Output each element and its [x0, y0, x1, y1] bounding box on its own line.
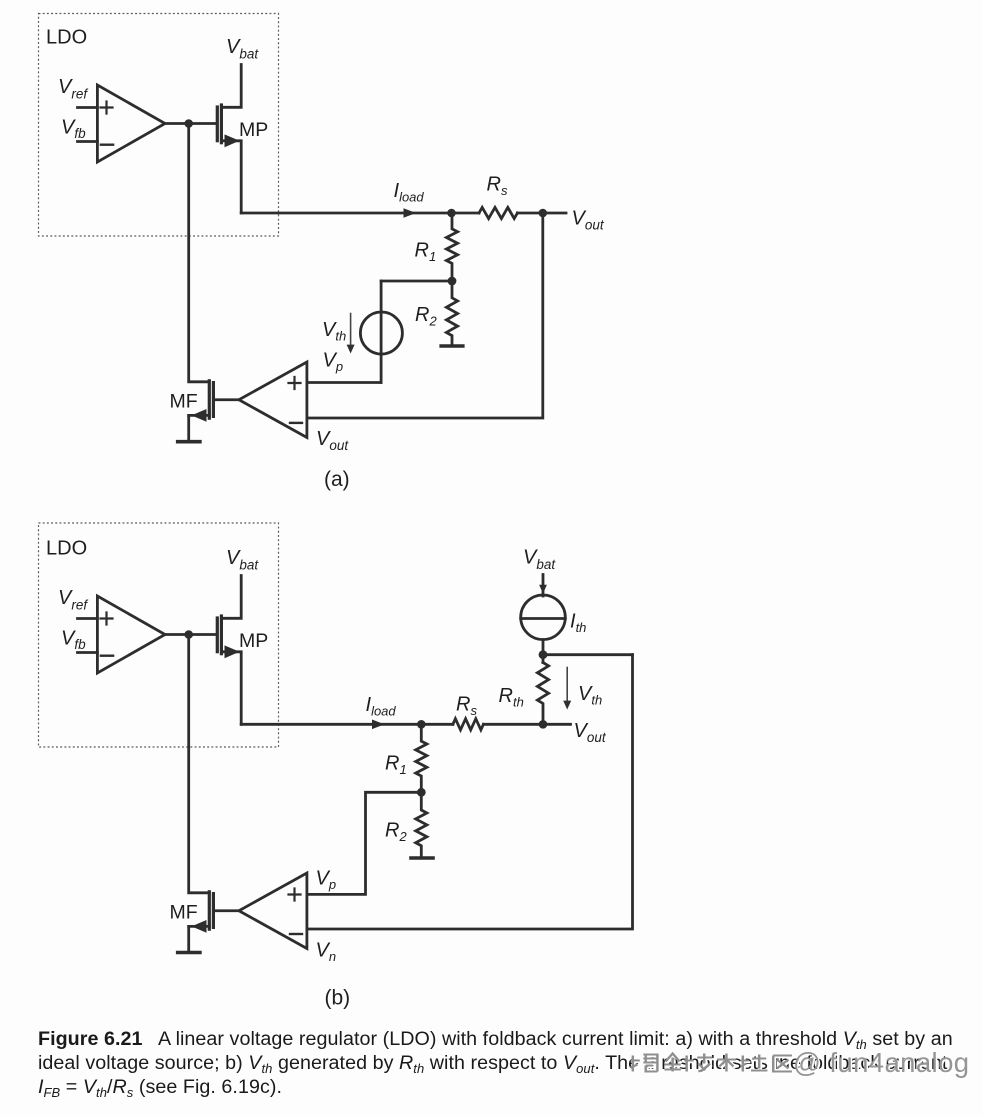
node R1/Rs junction dot (a): [447, 209, 456, 218]
wire MP drain to node (a): [241, 212, 479, 215]
node R1/Rs junction dot (b): [417, 720, 426, 729]
node R1/R2 junction dot (a): [448, 277, 457, 286]
op-amp A2 (b) foldback amplifier: [239, 873, 307, 949]
wire MP drain to node (b): [241, 723, 453, 726]
node A1 output dot (a): [184, 119, 193, 128]
wire Rs to Vout node (a): [517, 212, 542, 215]
op-amp A2 (a) foldback amplifier: [239, 362, 307, 438]
svg-text:Vp: Vp: [316, 868, 337, 893]
wire node to Vth source (a): [381, 280, 452, 283]
svg-text:Vref: Vref: [58, 76, 88, 102]
svg-text:Vbat: Vbat: [226, 547, 259, 573]
svg-text:Vref: Vref: [58, 587, 88, 613]
transistor MF (a) drain from channel: [189, 414, 210, 417]
svg-text:Vfb: Vfb: [61, 628, 86, 653]
op-amp A2 plus sign (b): [289, 889, 301, 901]
svg-text:Iload: Iload: [366, 694, 397, 719]
wire current source to node (b): [542, 640, 545, 663]
svg-text:LDO: LDO: [46, 538, 87, 560]
svg-text:MF: MF: [170, 902, 198, 924]
LDO box (b): [39, 523, 279, 747]
figure caption: [38, 1027, 968, 1100]
transistor MF (b) drain from channel: [189, 925, 210, 928]
svg-text:R1: R1: [385, 753, 407, 778]
wire MF to ground (b): [187, 926, 190, 951]
svg-text:Rth: Rth: [499, 685, 524, 710]
svg-text:Vout: Vout: [316, 428, 349, 453]
wire A1 output to MP gate (a): [165, 122, 217, 125]
wire Vfb input (a): [78, 140, 98, 143]
wire Vout stub (b): [543, 723, 571, 726]
transistor MP (b) channel bar: [220, 616, 223, 654]
wire Vout feedback to A2 minus input (a): [307, 213, 543, 418]
transistor MP (b) gate bar: [216, 618, 219, 652]
transistor MP (a) drain: [221, 141, 241, 213]
op-amp A1 minus sign (b): [101, 655, 113, 657]
wire node to A2 plus input (b): [307, 792, 421, 894]
resistor R1 (a): [446, 213, 457, 281]
ground MF (a): [178, 440, 200, 444]
svg-text:Vbat: Vbat: [523, 547, 556, 573]
svg-text:R2: R2: [415, 304, 437, 329]
resistor Rs (b): [453, 719, 484, 730]
LDO box (a): [39, 14, 279, 237]
resistor Rs (a): [479, 207, 517, 218]
transistor MP (a) channel bar: [220, 105, 223, 143]
arrow Vth direction (a): [350, 314, 352, 347]
svg-text:MP: MP: [239, 119, 268, 141]
arrow Iload (b): [372, 720, 385, 730]
transistor MF (a) channel bar: [208, 381, 211, 418]
transistor MF (a) gate bar: [212, 383, 215, 417]
op-amp A1 minus sign: [101, 143, 113, 145]
svg-text:Ith: Ith: [570, 611, 586, 636]
wire A2 output to MF gate (b): [215, 909, 239, 912]
wire Vp to A2 plus input (a): [307, 381, 381, 384]
current source bar (b): [521, 617, 566, 620]
transistor MF (b) arrow: [192, 920, 207, 933]
op-amp A1 plus sign (b): [101, 613, 113, 625]
op-amp A2 minus sign (b): [290, 933, 302, 935]
svg-text:Vth: Vth: [578, 683, 602, 708]
wire Rs to Vout node (b): [484, 723, 544, 726]
node A1 output dot (b): [184, 630, 193, 639]
transistor MP (b) drain: [221, 652, 241, 725]
transistor MP (a) arrow: [225, 134, 240, 147]
svg-text:MP: MP: [239, 630, 268, 652]
node Vout dot (a): [539, 209, 548, 218]
svg-text:Rs: Rs: [487, 174, 508, 199]
svg-text:(a): (a): [324, 468, 350, 491]
svg-text:Rs: Rs: [456, 694, 477, 719]
svg-text:Vbat: Vbat: [226, 36, 259, 62]
voltage source Vth circle (a): [360, 312, 402, 354]
resistor R1 (b): [416, 724, 427, 792]
op-amp A1 (b) error amplifier: [97, 596, 165, 673]
wire Vfb input (b): [78, 651, 98, 654]
svg-text:Iload: Iload: [394, 180, 425, 205]
node Vout dot (b): [539, 720, 548, 729]
arrow Vth direction (b): [566, 668, 568, 703]
wire Vref input (a): [78, 106, 98, 109]
op-amp A2 plus sign (a): [289, 377, 301, 389]
transistor MP (a) gate bar: [216, 107, 219, 141]
op-amp A1 plus sign: [101, 102, 113, 114]
arrow into current source (b): [539, 585, 547, 594]
op-amp A1 (a) error amplifier: [97, 85, 165, 162]
transistor MF (a) arrow: [192, 409, 207, 422]
wire A1 output to MP gate (b): [165, 633, 217, 636]
svg-text:MF: MF: [170, 391, 198, 413]
transistor MP (b) arrow: [225, 645, 240, 658]
current source Ith circle (b): [521, 595, 566, 640]
wire A1 output down to MF (b): [189, 635, 210, 893]
svg-text:Vfb: Vfb: [61, 117, 86, 142]
node R1/R2 junction dot (b): [417, 788, 426, 797]
ground MF (b): [178, 951, 200, 955]
ground R2 (b): [411, 856, 433, 860]
svg-text:Vth: Vth: [322, 319, 346, 344]
ground R2 (a): [441, 344, 463, 348]
wire A2 minus input Vn long feedback (b): [307, 655, 633, 929]
node below current source dot (b): [539, 650, 548, 659]
wire Vbat to current source (b): [542, 575, 545, 597]
resistor R2 (a): [446, 281, 457, 345]
svg-text:Vout: Vout: [572, 208, 605, 233]
wire Vref input (b): [78, 617, 98, 620]
wire A1 output down to MF (a): [189, 124, 210, 382]
svg-text:Vn: Vn: [316, 940, 337, 965]
transistor MP (a) source to Vbat: [221, 65, 241, 108]
wire Vout stub (a): [543, 212, 566, 215]
wire through Vth source (a): [380, 281, 383, 383]
resistor R2 (b): [416, 792, 427, 857]
op-amp A2 minus sign (a): [290, 422, 302, 424]
transistor MP (b) source to Vbat: [221, 576, 241, 619]
watermark: [629, 1048, 983, 1078]
svg-text:Vp: Vp: [323, 350, 344, 375]
wire node to feedback vertical (b): [543, 653, 633, 656]
svg-text:R1: R1: [415, 240, 437, 265]
wire MF to ground (a): [187, 415, 190, 440]
arrow Iload (a): [404, 208, 417, 218]
transistor MF (b) gate bar: [212, 894, 215, 928]
wire A2 output to MF gate (a): [215, 398, 239, 401]
svg-text:Vout: Vout: [574, 720, 607, 745]
svg-text:LDO: LDO: [46, 27, 87, 49]
resistor Rth (b): [537, 663, 548, 725]
svg-text:(b): (b): [325, 987, 351, 1010]
svg-text:R2: R2: [385, 820, 407, 845]
transistor MF (b) channel bar: [208, 892, 211, 929]
